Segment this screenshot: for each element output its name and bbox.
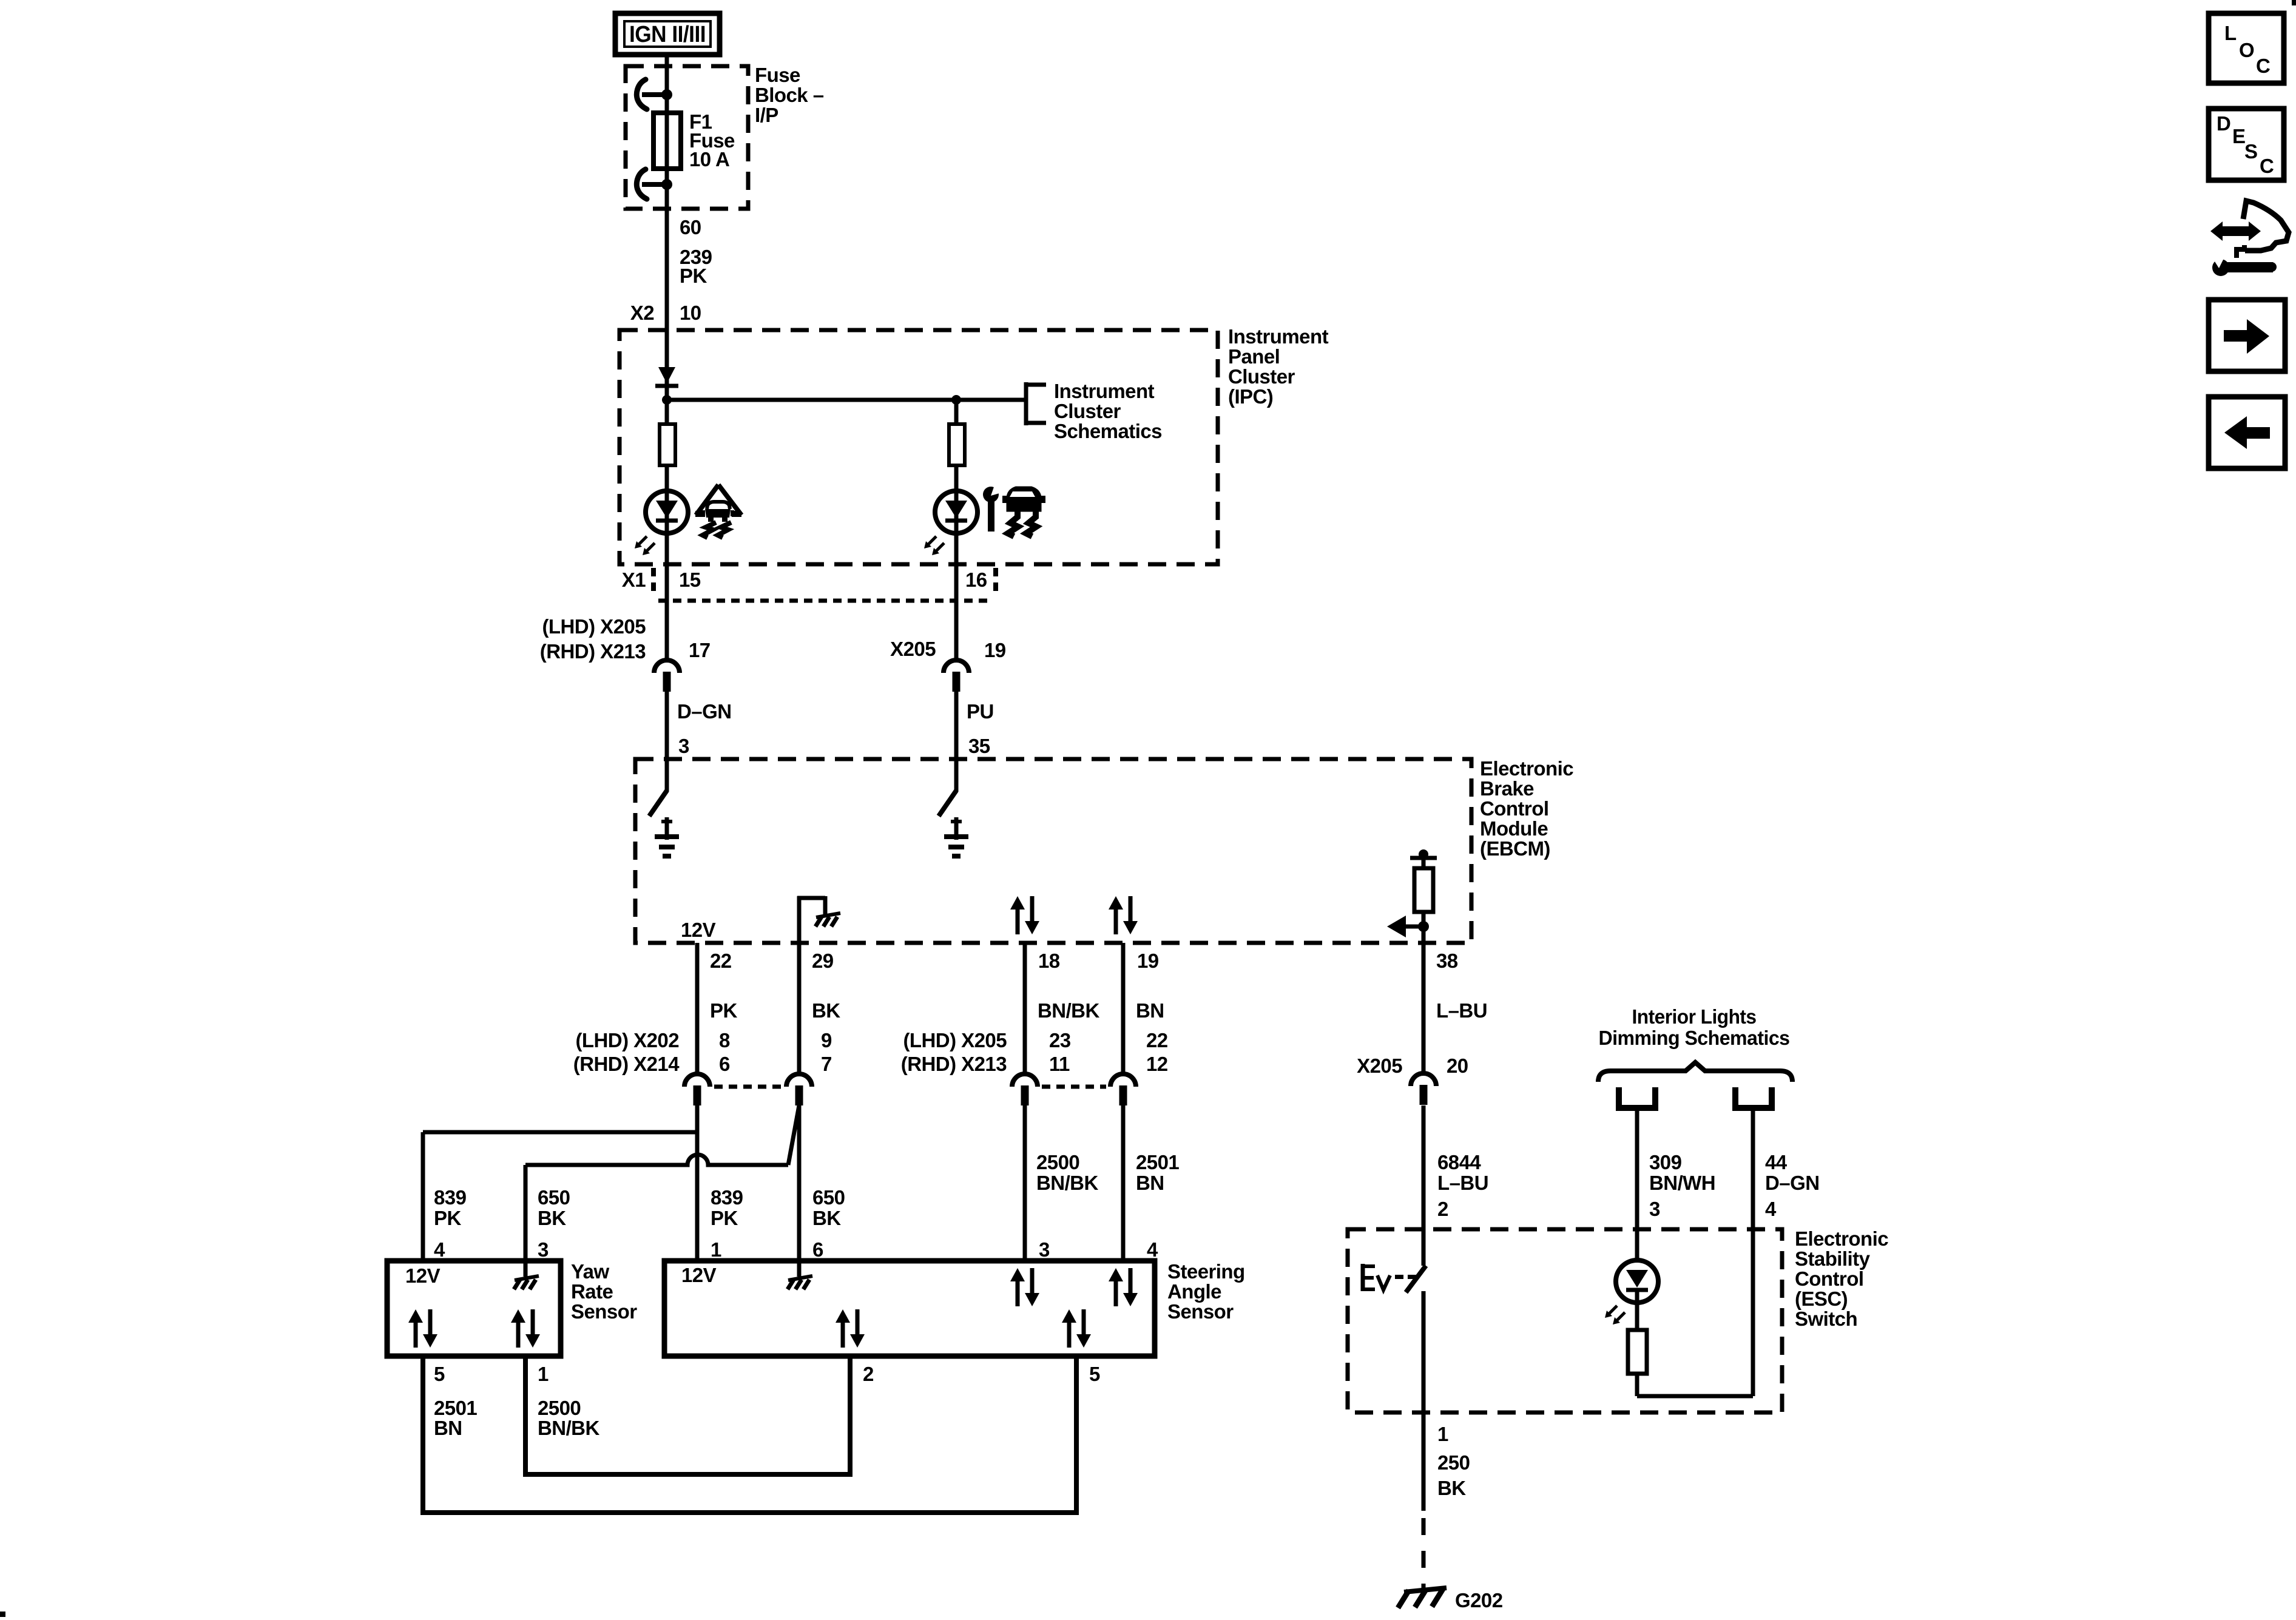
wire 239 PK fuse to IPC xyxy=(665,184,669,400)
svg-text:Instrument: Instrument xyxy=(1228,325,1329,348)
junction node pin 38 xyxy=(1418,921,1429,932)
wire 6844 L-BU segment xyxy=(1422,943,1426,1073)
svg-text:L: L xyxy=(2224,22,2237,44)
in-line connector pin 17 xyxy=(654,660,680,673)
wire 250 BK dashed to ground xyxy=(1422,1518,1426,1535)
svg-text:BN: BN xyxy=(1136,1172,1164,1194)
wire 44 D-GN xyxy=(1751,1111,1755,1396)
svg-text:(LHD) X202: (LHD) X202 xyxy=(575,1029,679,1051)
svg-text:D–GN: D–GN xyxy=(677,700,732,723)
svg-text:PU: PU xyxy=(967,700,994,723)
in-line connector pin 19 xyxy=(944,660,969,673)
svg-text:35: 35 xyxy=(968,735,990,757)
ESC LED lamp xyxy=(1616,1260,1658,1303)
wire 309 BN/WH xyxy=(1635,1111,1639,1261)
fuse F1 body xyxy=(653,113,681,169)
connector X1 dashed row xyxy=(658,599,993,603)
wire 650 BK branch to yaw sensor with hop xyxy=(525,1155,788,1165)
wire 650 BK diagonal xyxy=(788,1105,799,1165)
svg-text:(IPC): (IPC) xyxy=(1228,385,1273,408)
svg-text:Schematics: Schematics xyxy=(1054,420,1162,442)
ESC LED light arrows xyxy=(1609,1306,1617,1314)
power tag IGN II/III box xyxy=(615,13,720,55)
svg-text:1: 1 xyxy=(538,1363,549,1385)
svg-text:2500: 2500 xyxy=(538,1397,581,1419)
in-line connector X205 pin 22 xyxy=(1110,1074,1136,1087)
svg-text:9: 9 xyxy=(821,1029,832,1051)
off-page receptacle D-GN xyxy=(1735,1087,1772,1108)
indicator LED lamp 2 xyxy=(935,491,977,533)
ground G202 symbol xyxy=(1404,1588,1447,1592)
EBCM output arrow left xyxy=(1402,925,1423,929)
svg-text:11: 11 xyxy=(1049,1053,1070,1075)
svg-text:10: 10 xyxy=(680,302,701,324)
svg-text:17: 17 xyxy=(689,639,711,661)
Electronic Brake Control Module dashed box xyxy=(635,759,1471,943)
icon arrow left xyxy=(2224,416,2247,449)
ground symbol EBCM 1 xyxy=(665,817,669,840)
junction node A xyxy=(662,395,672,405)
svg-text:8: 8 xyxy=(719,1029,730,1051)
EBCM switch to ground 2 xyxy=(954,759,959,792)
sas hatch ground symbol xyxy=(788,1276,812,1280)
yaw hatch ground symbol xyxy=(515,1276,539,1280)
svg-text:Stability: Stability xyxy=(1795,1247,1871,1270)
wire 839 PK segment xyxy=(695,943,700,1074)
svg-text:Sensor: Sensor xyxy=(571,1300,637,1323)
svg-text:L–BU: L–BU xyxy=(1436,999,1487,1022)
svg-text:12V: 12V xyxy=(405,1264,441,1287)
svg-text:2: 2 xyxy=(1437,1198,1448,1220)
svg-text:Brake: Brake xyxy=(1480,777,1534,800)
svg-text:X1: X1 xyxy=(622,569,646,591)
wire D-GN IPC to connector xyxy=(665,564,669,661)
svg-text:839: 839 xyxy=(711,1186,743,1209)
svg-text:Instrument: Instrument xyxy=(1054,380,1155,402)
wire ESC switch lower contact xyxy=(1422,1291,1426,1511)
sas serial arrows pin 5 xyxy=(1062,1309,1076,1323)
wire 2500 BN/BK to steering sensor pin 3 xyxy=(1023,1105,1027,1261)
svg-text:29: 29 xyxy=(812,950,834,972)
svg-text:19: 19 xyxy=(1137,950,1159,972)
svg-text:Control: Control xyxy=(1795,1267,1863,1290)
resistor in EBCM output xyxy=(1414,868,1433,912)
connector X205 dashed link xyxy=(1042,1085,1106,1089)
wire fuse block internal xyxy=(665,95,669,184)
traction control indicator icon xyxy=(696,485,718,515)
wire 2500 BN/BK segment xyxy=(1023,943,1027,1074)
svg-text:19: 19 xyxy=(984,639,1006,661)
svg-text:BN/BK: BN/BK xyxy=(1036,1172,1098,1194)
EBCM serial data arrows pin 19 xyxy=(1109,896,1123,910)
icon box arrow right xyxy=(2209,300,2285,371)
svg-text:Yaw: Yaw xyxy=(571,1260,609,1283)
Yaw Rate Sensor box xyxy=(387,1261,561,1356)
svg-text:S: S xyxy=(2244,140,2257,163)
junction node B xyxy=(951,395,961,405)
svg-text:4: 4 xyxy=(1147,1238,1158,1261)
svg-text:6844: 6844 xyxy=(1437,1151,1481,1173)
off-page receptacle BN/WH xyxy=(1619,1087,1655,1108)
in-line connector X202 pin 8 xyxy=(684,1074,710,1087)
svg-text:BK: BK xyxy=(1437,1477,1466,1499)
speck bottom-left corner xyxy=(0,1612,5,1617)
connector X1 dashes right xyxy=(993,568,998,597)
svg-text:12: 12 xyxy=(1146,1053,1168,1075)
svg-text:BK: BK xyxy=(538,1207,566,1229)
resistor in ESC switch xyxy=(1628,1330,1647,1374)
service ESC indicator icon car with skid xyxy=(1007,487,1041,511)
ESC switch blade xyxy=(1406,1266,1426,1292)
svg-text:L–BU: L–BU xyxy=(1437,1172,1488,1194)
svg-text:Module: Module xyxy=(1480,817,1548,840)
svg-text:650: 650 xyxy=(538,1186,570,1209)
svg-text:839: 839 xyxy=(434,1186,467,1209)
svg-text:X205: X205 xyxy=(1357,1055,1402,1077)
wire IPC branch 2 xyxy=(954,400,959,566)
svg-text:22: 22 xyxy=(710,950,732,972)
svg-text:Block –: Block – xyxy=(755,84,824,106)
yaw internal ground wire xyxy=(524,1261,528,1277)
svg-text:44: 44 xyxy=(1765,1151,1788,1173)
svg-text:15: 15 xyxy=(679,569,701,591)
svg-text:PK: PK xyxy=(711,1207,738,1229)
svg-text:4: 4 xyxy=(1765,1198,1777,1220)
brace Interior Lights xyxy=(1598,1062,1792,1082)
wire 650 BK to steering sensor pin 6 xyxy=(797,1105,802,1261)
svg-text:BK: BK xyxy=(812,1207,841,1229)
Fuse Block - I/P dashed box xyxy=(626,66,748,209)
speck top-right corner xyxy=(2292,0,2296,5)
svg-text:(EBCM): (EBCM) xyxy=(1480,837,1550,860)
sas serial arrows pin 4 xyxy=(1109,1268,1123,1281)
svg-text:I/P: I/P xyxy=(755,104,778,126)
svg-text:Angle: Angle xyxy=(1167,1280,1221,1303)
svg-text:Control: Control xyxy=(1480,797,1548,820)
svg-text:Fuse: Fuse xyxy=(755,64,800,86)
LED1 light arrows xyxy=(638,536,647,545)
EBCM switch to ground 1 xyxy=(665,759,669,792)
svg-text:BN: BN xyxy=(434,1417,462,1439)
ESC momentary switch symbol E xyxy=(1361,1264,1365,1291)
ground symbol EBCM 2 xyxy=(954,817,959,840)
svg-text:309: 309 xyxy=(1649,1151,1682,1173)
svg-text:3: 3 xyxy=(538,1238,549,1261)
fuse clip bottom xyxy=(636,169,647,199)
svg-text:D–GN: D–GN xyxy=(1765,1172,1820,1194)
wire EBCM resistor to junction xyxy=(1422,912,1426,943)
svg-text:(RHD) X213: (RHD) X213 xyxy=(901,1053,1007,1075)
svg-text:PK: PK xyxy=(434,1207,461,1229)
off-page bracket to Instrument Cluster Schematics xyxy=(1024,382,1028,425)
icon arrow right xyxy=(2224,330,2247,342)
svg-text:(RHD) X213: (RHD) X213 xyxy=(540,640,646,663)
svg-text:1: 1 xyxy=(1437,1423,1448,1445)
icon box arrow left xyxy=(2209,397,2285,468)
wire ESC LED loop xyxy=(1635,1290,1639,1330)
svg-text:IGN II/III: IGN II/III xyxy=(629,22,706,47)
icon car diagnostic with arrow and wrench xyxy=(2210,221,2261,241)
svg-text:E: E xyxy=(2232,125,2245,147)
svg-text:(RHD) X214: (RHD) X214 xyxy=(573,1053,680,1075)
svg-text:BN: BN xyxy=(1136,999,1164,1022)
sas internal ground wire xyxy=(797,1261,802,1277)
svg-text:1: 1 xyxy=(711,1238,721,1261)
svg-text:250: 250 xyxy=(1437,1451,1470,1474)
svg-text:BK: BK xyxy=(812,999,840,1022)
LED2 light arrows xyxy=(928,536,936,545)
svg-text:2501: 2501 xyxy=(434,1397,477,1419)
svg-text:7: 7 xyxy=(821,1053,832,1075)
svg-text:Panel: Panel xyxy=(1228,345,1280,368)
wire 6844 L-BU to ESC switch xyxy=(1422,1105,1426,1266)
svg-text:3: 3 xyxy=(678,735,689,757)
svg-text:BN/WH: BN/WH xyxy=(1649,1172,1715,1194)
svg-text:6: 6 xyxy=(812,1238,823,1261)
svg-text:Steering: Steering xyxy=(1167,1260,1245,1283)
sas serial arrows pin 3 xyxy=(1010,1268,1025,1281)
svg-text:12V: 12V xyxy=(681,1264,717,1286)
wire IGN to fuse block xyxy=(665,55,669,97)
svg-text:(ESC): (ESC) xyxy=(1795,1288,1848,1310)
svg-text:12V: 12V xyxy=(681,919,716,941)
in-line connector X205 pin 20 xyxy=(1411,1073,1436,1086)
EBCM internal ground wire pin 29 xyxy=(797,896,802,943)
svg-text:650: 650 xyxy=(812,1186,845,1209)
service ESC indicator icon wrench xyxy=(983,487,999,502)
svg-text:18: 18 xyxy=(1038,950,1060,972)
svg-text:Interior Lights: Interior Lights xyxy=(1632,1005,1757,1028)
svg-text:22: 22 xyxy=(1146,1029,1168,1051)
svg-text:Electronic: Electronic xyxy=(1480,757,1573,780)
Steering Angle Sensor box xyxy=(664,1261,1155,1356)
connector X1 dashes left xyxy=(651,568,656,597)
svg-text:Cluster: Cluster xyxy=(1054,400,1121,422)
EBCM serial data arrows pin 18 xyxy=(1010,896,1025,910)
wire 839 PK to steering sensor pin 1 xyxy=(695,1105,700,1261)
icon box DESC xyxy=(2209,109,2284,180)
svg-text:3: 3 xyxy=(1649,1198,1660,1220)
wire 2501 BN to steering sensor pin 4 xyxy=(1121,1105,1126,1261)
wire 839 PK branch to yaw sensor xyxy=(423,1130,697,1135)
svg-text:O: O xyxy=(2239,39,2254,61)
svg-text:Cluster: Cluster xyxy=(1228,365,1295,388)
resistor in IPC branch 2 xyxy=(949,424,965,465)
svg-text:Electronic: Electronic xyxy=(1795,1227,1888,1250)
svg-text:X205: X205 xyxy=(890,638,936,660)
svg-text:(LHD) X205: (LHD) X205 xyxy=(903,1029,1007,1051)
svg-text:2500: 2500 xyxy=(1036,1151,1079,1173)
EBCM internal hatch ground symbol xyxy=(816,913,840,917)
svg-text:C: C xyxy=(2256,55,2270,77)
svg-text:10 A: 10 A xyxy=(689,148,729,170)
yaw serial arrows pin 5 xyxy=(408,1309,423,1323)
svg-text:16: 16 xyxy=(965,569,987,591)
wire 2500 BN/BK yaw pin1 to sas pin2 xyxy=(525,1356,850,1474)
svg-text:23: 23 xyxy=(1049,1029,1071,1051)
svg-text:60: 60 xyxy=(680,216,701,238)
yaw serial arrows pin 1 xyxy=(511,1309,525,1323)
wire IPC branch 1 xyxy=(665,400,669,566)
svg-text:3: 3 xyxy=(1039,1238,1050,1261)
wire 2501 BN segment xyxy=(1121,943,1126,1074)
svg-text:2501: 2501 xyxy=(1136,1151,1179,1173)
svg-text:C: C xyxy=(2260,155,2274,177)
svg-text:6: 6 xyxy=(719,1053,730,1075)
svg-text:PK: PK xyxy=(710,999,737,1022)
connector X202 dashed link xyxy=(714,1085,783,1089)
svg-text:D: D xyxy=(2217,112,2230,135)
svg-text:G202: G202 xyxy=(1455,1589,1503,1612)
wire 2501 BN yaw pin5 to sas pin5 xyxy=(423,1356,1076,1513)
svg-text:5: 5 xyxy=(434,1363,445,1385)
wire D-GN connector to EBCM xyxy=(665,691,669,759)
svg-text:X2: X2 xyxy=(630,302,654,324)
svg-text:4: 4 xyxy=(434,1238,445,1261)
svg-text:(LHD) X205: (LHD) X205 xyxy=(542,615,646,638)
svg-text:Dimming Schematics: Dimming Schematics xyxy=(1599,1027,1790,1049)
svg-text:Switch: Switch xyxy=(1795,1308,1857,1330)
Instrument Panel Cluster dashed box xyxy=(620,330,1218,564)
svg-text:38: 38 xyxy=(1436,950,1458,972)
wire 650 BK segment xyxy=(797,943,802,1074)
wire PU IPC to connector xyxy=(954,564,959,661)
svg-text:2: 2 xyxy=(863,1363,874,1385)
EBCM output driver node xyxy=(1419,849,1428,859)
sas serial arrows pin 2 xyxy=(836,1309,850,1323)
svg-text:Rate: Rate xyxy=(571,1280,613,1303)
svg-text:5: 5 xyxy=(1089,1363,1100,1385)
svg-text:BN/BK: BN/BK xyxy=(538,1417,599,1439)
svg-text:BN/BK: BN/BK xyxy=(1038,999,1099,1022)
svg-text:20: 20 xyxy=(1447,1055,1468,1077)
supply arrow into IPC xyxy=(658,367,675,383)
in-line connector X205 pin 23 xyxy=(1012,1074,1038,1087)
icon box LOC xyxy=(2209,13,2284,83)
svg-text:Sensor: Sensor xyxy=(1167,1300,1234,1323)
wire internal IPC bus xyxy=(667,398,1024,402)
indicator LED lamp 1 xyxy=(646,491,688,533)
Electronic Stability Control Switch dashed box xyxy=(1348,1229,1782,1412)
in-line connector X202 pin 9 xyxy=(786,1074,812,1087)
wire PU connector to EBCM xyxy=(954,691,959,759)
resistor in IPC branch 1 xyxy=(660,424,675,465)
fuse clip top xyxy=(636,79,647,109)
svg-text:PK: PK xyxy=(680,265,707,287)
